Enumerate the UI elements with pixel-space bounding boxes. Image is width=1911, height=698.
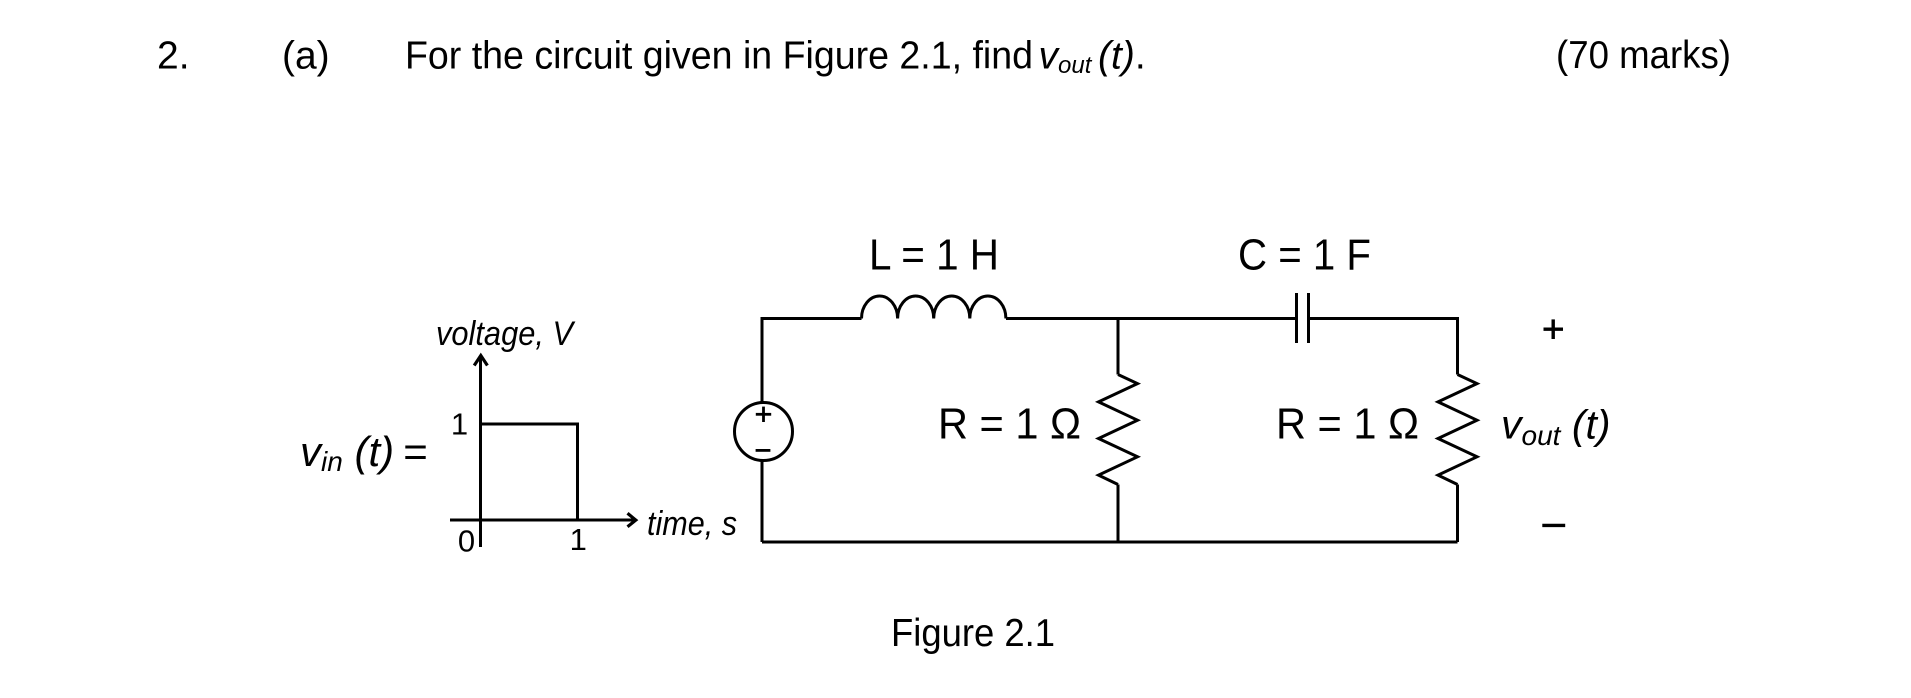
question text xyxy=(405,35,1033,78)
svg-text:1: 1 xyxy=(451,407,468,442)
graph voltage axis xyxy=(474,356,487,548)
label vin(t)= xyxy=(300,428,428,477)
inductor L xyxy=(862,296,1006,319)
question number 2. xyxy=(157,35,190,78)
svg-text:0: 0 xyxy=(458,524,475,559)
graph tick label 1 (voltage) xyxy=(451,407,468,442)
graph tick label 0 xyxy=(458,524,475,559)
svg-text:(70 marks): (70 marks) xyxy=(1556,34,1731,77)
marks label (70 marks) xyxy=(1556,34,1731,77)
wire: resistor R1 to bottom rail xyxy=(1117,485,1120,543)
graph tick label 1 (time) xyxy=(570,522,587,557)
svg-text:Figure 2.1: Figure 2.1 xyxy=(891,612,1055,655)
svg-text:time, s: time, s xyxy=(647,505,737,543)
wire top-left: source to inductor xyxy=(762,319,862,403)
svg-text:C = 1 F: C = 1 F xyxy=(1238,231,1371,280)
svg-text:(a): (a) xyxy=(282,35,330,78)
graph label time, s xyxy=(647,505,737,543)
label C = 1 F xyxy=(1238,231,1371,280)
wire node stub: top rail to resistor R1 xyxy=(1117,319,1120,375)
output minus terminal xyxy=(1542,524,1565,527)
question text vout(t). xyxy=(1039,35,1146,80)
wire left-bottom: source to bottom rail xyxy=(761,461,764,543)
svg-text:vout(t).: vout(t). xyxy=(1039,35,1146,80)
wire: resistor R2 to bottom rail xyxy=(1456,485,1459,543)
output plus terminal xyxy=(1544,319,1564,339)
graph label voltage, V xyxy=(436,315,576,353)
svg-text:vin (t) =: vin (t) = xyxy=(300,428,428,477)
part label (a) xyxy=(282,35,330,78)
label R = 1 ohm (right) xyxy=(1276,400,1419,449)
voltage source VS xyxy=(735,403,793,461)
wire top-middle: inductor to node and to capacitor xyxy=(1006,317,1295,320)
graph pulse waveform xyxy=(481,424,578,520)
graph time axis xyxy=(450,513,636,526)
label R = 1 ohm (left) xyxy=(938,400,1081,449)
resistor R2 xyxy=(1438,375,1477,485)
caption Figure 2.1 xyxy=(891,612,1055,655)
svg-text:1: 1 xyxy=(570,522,587,557)
svg-text:L = 1 H: L = 1 H xyxy=(869,231,999,280)
capacitor C xyxy=(1297,293,1309,343)
resistor R1 xyxy=(1099,375,1138,485)
wire top-right: capacitor to right corner xyxy=(1310,319,1458,375)
svg-text:vout (t): vout (t) xyxy=(1501,402,1611,452)
svg-text:R = 1 Ω: R = 1 Ω xyxy=(938,400,1081,449)
svg-text:voltage, V: voltage, V xyxy=(436,315,576,353)
svg-text:For the circuit given in Figur: For the circuit given in Figure 2.1, fin… xyxy=(405,35,1033,78)
svg-text:2.: 2. xyxy=(157,35,190,78)
svg-text:R = 1 Ω: R = 1 Ω xyxy=(1276,400,1419,449)
bottom rail wire xyxy=(762,541,1458,544)
label L = 1 H xyxy=(869,231,999,280)
label vout(t) xyxy=(1501,402,1611,452)
